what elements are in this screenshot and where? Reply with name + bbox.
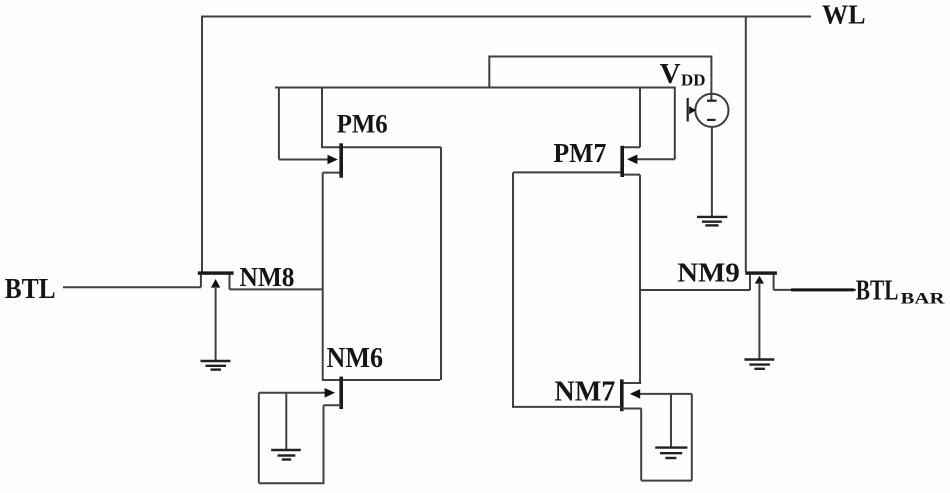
wire PM7 source vertical bbox=[639, 87, 641, 148]
svg-text:PM7: PM7 bbox=[553, 137, 606, 168]
transistor NM8 bulk arrowhead bbox=[211, 279, 220, 288]
wire PM7 drain right vertical bbox=[639, 175, 641, 383]
svg-text:NM6: NM6 bbox=[327, 343, 384, 374]
wire WL right drop to NM9 bbox=[745, 16, 747, 272]
transistor PM6 bulk arrowhead bbox=[328, 155, 338, 165]
wire NM8 bulk ground line bbox=[215, 286, 217, 361]
wire PM6 bulk feed vertical bbox=[278, 87, 280, 160]
wire VDD source top lead bbox=[710, 56, 712, 102]
svg-text:NM8: NM8 bbox=[240, 262, 295, 292]
wire NM8 drain lead vertical bbox=[229, 275, 231, 290]
wire NM9 to BTLBAR bbox=[774, 289, 856, 291]
wire NM7 bottom lead left bbox=[512, 406, 621, 408]
wire NM7 top lead bbox=[622, 382, 641, 384]
wire PM6 source vertical bbox=[321, 87, 323, 148]
wire NM6 box bottom bbox=[259, 482, 325, 484]
transistor NM6 bulk arrowhead bbox=[325, 388, 335, 398]
voltage source left bar bbox=[687, 98, 689, 122]
wire NM6 box left vertical bbox=[258, 393, 260, 483]
svg-text:V: V bbox=[660, 59, 681, 90]
voltage source left arrowhead bbox=[689, 106, 696, 114]
wire NM8 source lead vertical bbox=[200, 275, 202, 288]
wire NM6 top lead bbox=[322, 379, 440, 381]
transistor PM7 channel bar bbox=[620, 146, 624, 177]
svg-text:NM7: NM7 bbox=[554, 376, 615, 408]
voltage source V1 VDD circle bbox=[695, 94, 728, 127]
transistor PM6 channel bar bbox=[339, 143, 343, 177]
wire PM6 drain left vertical bbox=[322, 173, 324, 380]
ground in NM7 box bbox=[655, 448, 687, 458]
wire PM6 bulk arrow line bbox=[279, 159, 329, 161]
wire PM6 drain right vertical bbox=[440, 147, 442, 380]
voltage source minus terminal bbox=[707, 119, 716, 121]
wire PM7 bottom lead left bbox=[513, 171, 622, 173]
wire PM7 drain left vertical bbox=[512, 172, 514, 407]
ground under NM8 bbox=[201, 361, 231, 370]
wire WL horizontal top bbox=[202, 16, 811, 18]
svg-text:BTL: BTL bbox=[856, 276, 899, 307]
wire NM7 ground tap bbox=[670, 394, 672, 447]
transistor NM9 bulk arrowhead bbox=[755, 276, 764, 284]
wire VDD lower rail bbox=[275, 87, 675, 89]
wire NM6 bottom lead bbox=[324, 404, 342, 406]
svg-text:BTL: BTL bbox=[5, 274, 56, 305]
wire NM9 to BTLBAR thick overlay bbox=[791, 288, 854, 291]
ground in NM6 box bbox=[271, 450, 301, 460]
svg-text:PM6: PM6 bbox=[337, 110, 388, 139]
wire VDD upper rail bbox=[489, 56, 711, 58]
transistor NM9 channel bar bbox=[745, 271, 777, 274]
wire NM7 box right vertical bbox=[691, 394, 693, 481]
transistor NM6 channel bar bbox=[339, 377, 343, 409]
wire PM6 bottom lead bbox=[323, 172, 341, 174]
transistor PM7 bulk arrowhead bbox=[627, 155, 637, 165]
wire NM7 bottom lead right bbox=[622, 408, 641, 410]
transistor NM7 bulk arrowhead bbox=[630, 389, 640, 399]
wire VDD rail link vertical bbox=[488, 56, 490, 89]
wire WL left drop to NM8 bbox=[201, 16, 203, 273]
transistor NM8 channel bar bbox=[198, 271, 234, 274]
ground under VDD source bbox=[697, 217, 727, 226]
wire NM6 bulk arrow line bbox=[259, 392, 326, 394]
voltage source plus terminal bbox=[707, 100, 717, 102]
wire NM9 drain lead vertical bbox=[773, 275, 775, 290]
wire PM6 top lead bbox=[321, 146, 441, 148]
wire NM8 drain to node A bbox=[230, 288, 323, 290]
wire PM7 bulk arrow line bbox=[636, 158, 675, 160]
svg-text:DD: DD bbox=[681, 71, 706, 90]
wire PM7 bottom lead right bbox=[622, 174, 640, 176]
wire NM9 source lead vertical bbox=[749, 275, 751, 291]
wire NM7 bulk arrow line bbox=[638, 393, 692, 395]
wire VDD source bottom lead bbox=[711, 127, 713, 216]
wire PM7 top lead bbox=[622, 146, 640, 148]
wire BTL horizontal bbox=[63, 286, 201, 288]
wire NM7 source right vertical bbox=[640, 409, 642, 481]
svg-text:NM9: NM9 bbox=[677, 257, 740, 288]
ground under NM9 bbox=[744, 360, 774, 369]
svg-text:BAR: BAR bbox=[901, 291, 946, 308]
wire PM7 bulk feed vertical bbox=[674, 87, 676, 160]
wire node B to NM9 bbox=[640, 289, 750, 291]
wire NM6 source vertical bbox=[323, 405, 325, 483]
wire NM6 ground tap bbox=[285, 393, 287, 450]
wire NM7 box bottom bbox=[641, 480, 692, 482]
transistor NM7 channel bar bbox=[620, 379, 624, 411]
wire NM9 bulk ground line bbox=[758, 283, 760, 360]
svg-text:WL: WL bbox=[822, 0, 866, 30]
